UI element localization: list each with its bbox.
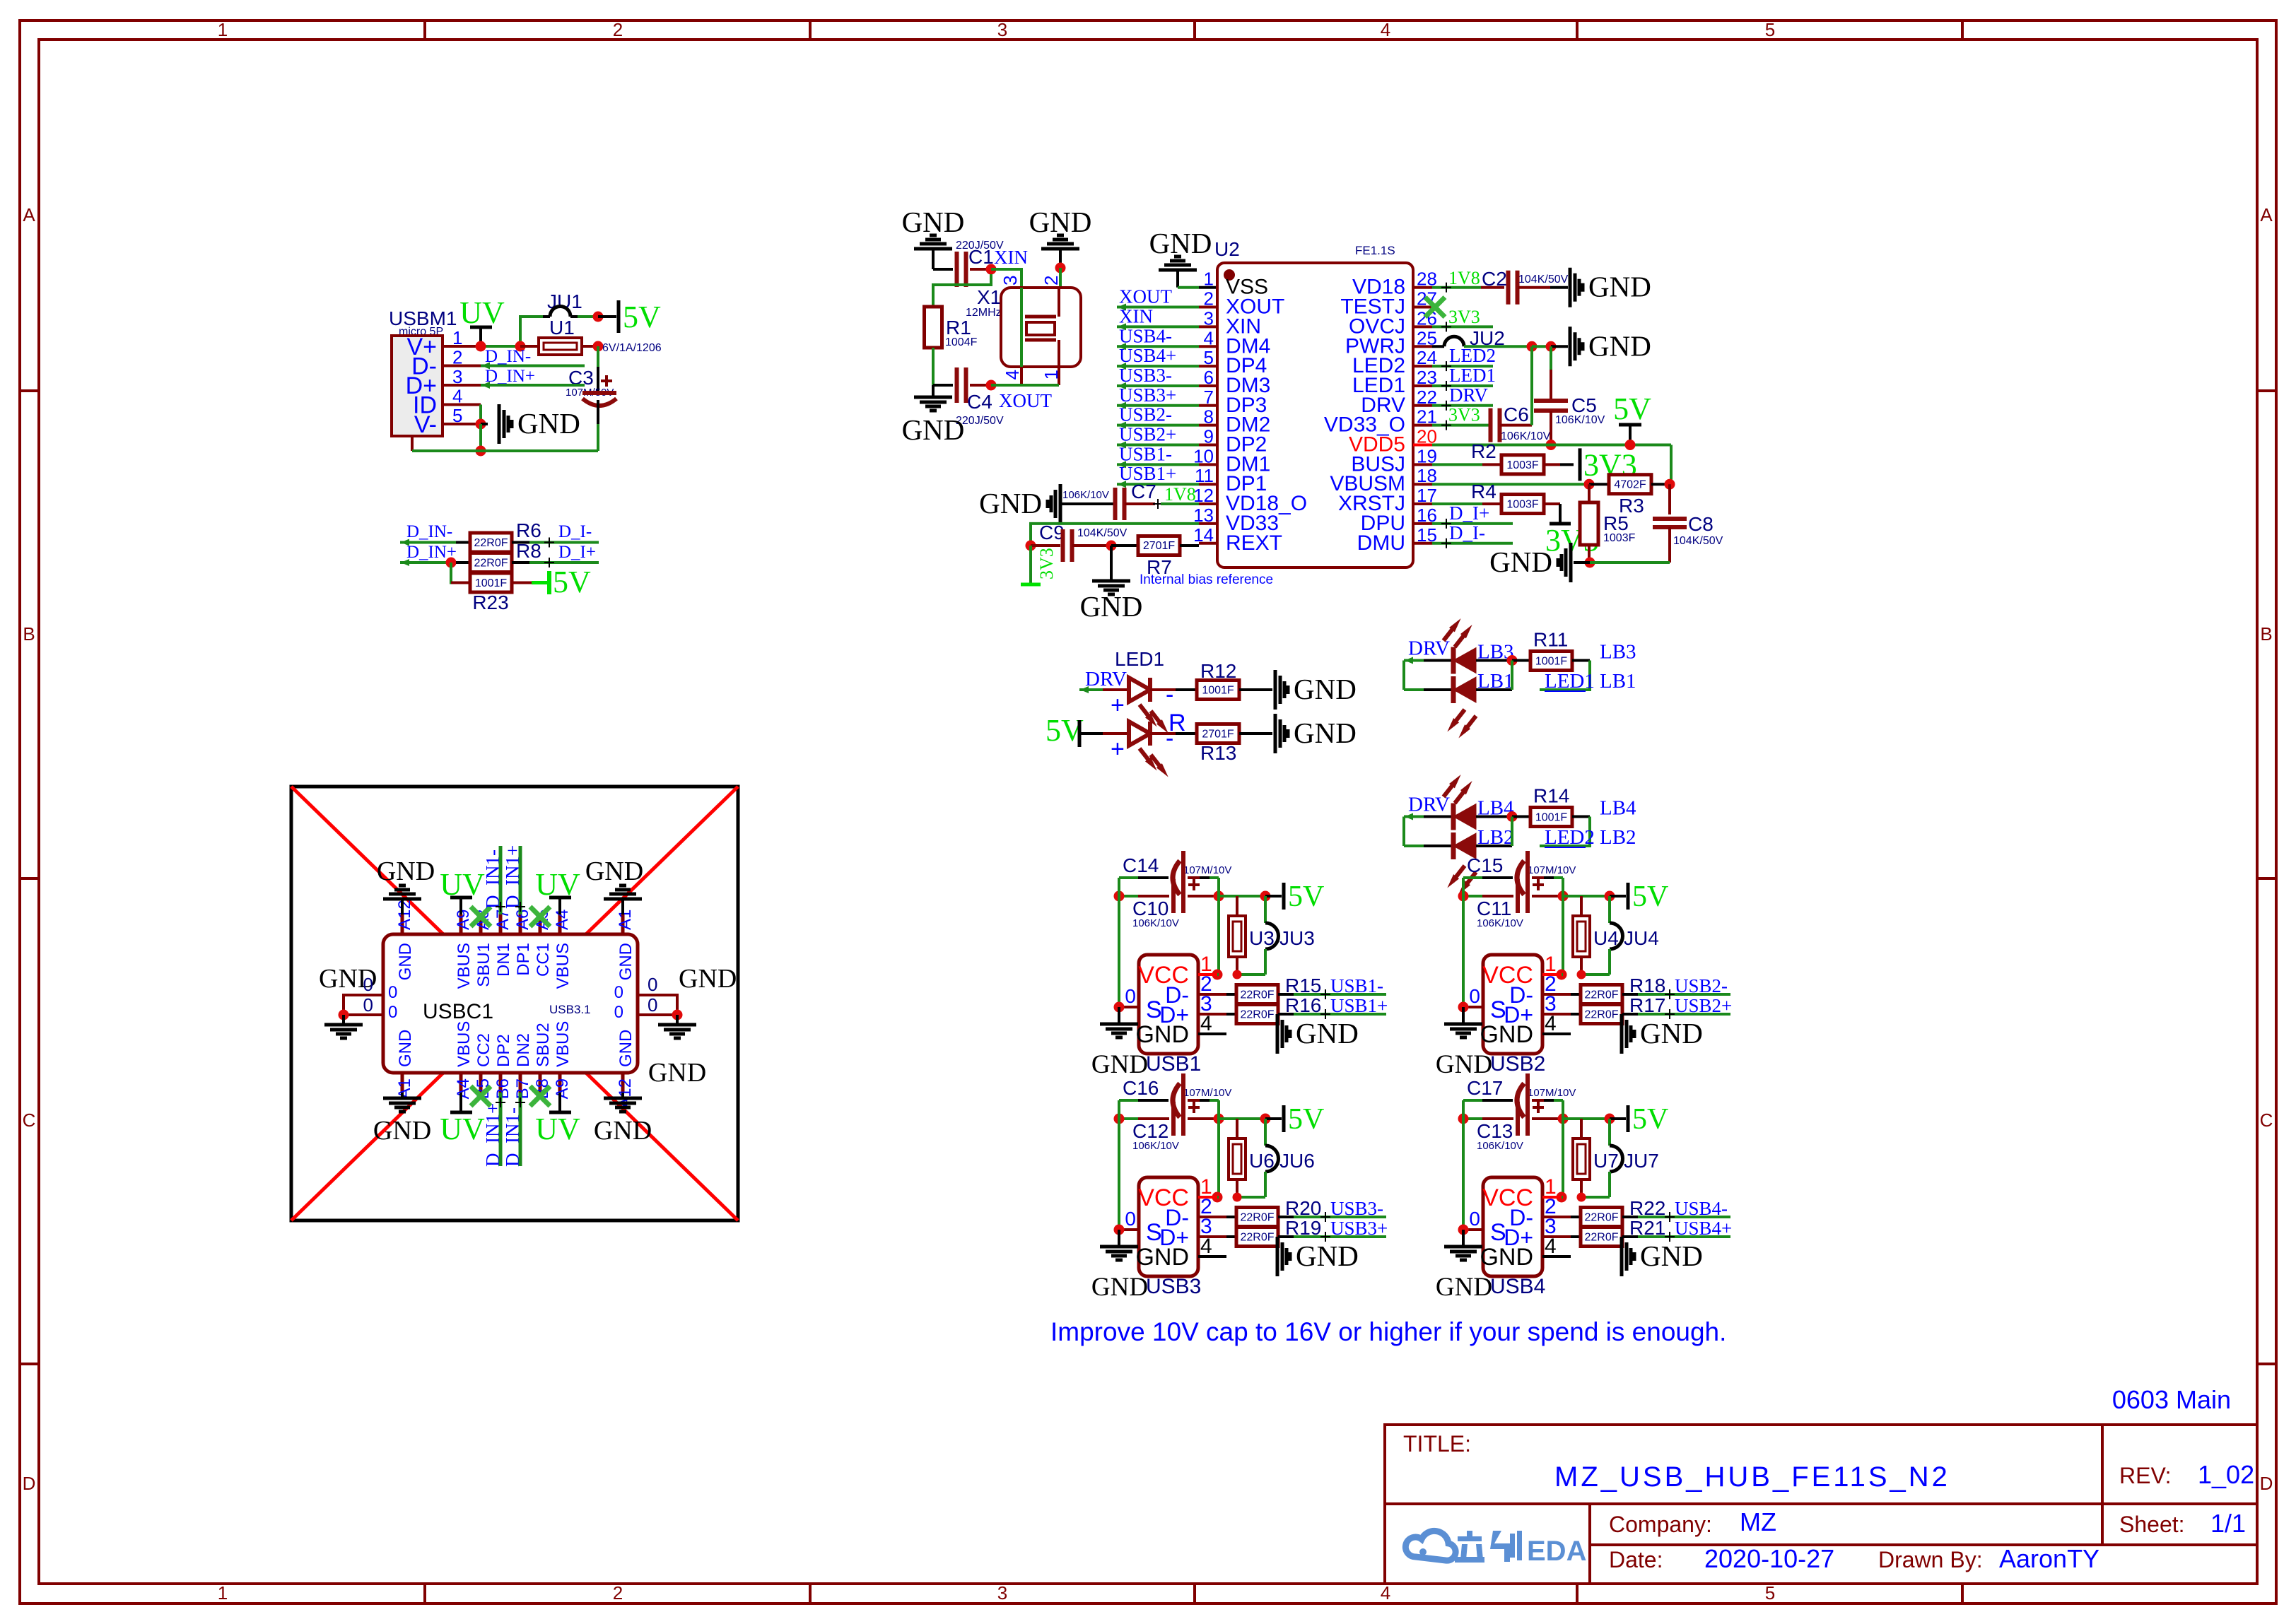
LED element B xyxy=(1103,732,1129,735)
svg-text:GND: GND xyxy=(1436,1273,1492,1302)
junction C11 right xyxy=(1558,891,1569,902)
svg-text:USBC1: USBC1 xyxy=(423,1000,493,1023)
svg-text:107M/10V: 107M/10V xyxy=(1528,1087,1576,1099)
svg-text:JU4: JU4 xyxy=(1624,927,1659,949)
svg-text:SBU1: SBU1 xyxy=(474,943,493,987)
USB pin 2 D- xyxy=(1198,993,1226,996)
svg-text:GND: GND xyxy=(1588,271,1651,303)
junction VCC a xyxy=(1557,1192,1567,1203)
junction V- xyxy=(476,419,486,430)
LED LB2 xyxy=(1404,845,1424,847)
svg-text:1001F: 1001F xyxy=(1202,685,1234,697)
wire USB1- xyxy=(1294,993,1386,996)
svg-text:0: 0 xyxy=(1125,1208,1136,1230)
ground GND (pin4) xyxy=(1620,1014,1624,1054)
junction V+ xyxy=(476,341,486,352)
wire XIN xyxy=(1117,325,1199,328)
junction JU2 b xyxy=(1546,341,1557,352)
svg-text:2020-10-27: 2020-10-27 xyxy=(1704,1544,1834,1573)
svg-text:GND: GND xyxy=(373,1116,431,1146)
wire USB3- xyxy=(1294,1216,1386,1218)
USBC1 bottom pin A4 VBUS xyxy=(459,1073,463,1093)
power flag UV (A9 bottom) xyxy=(549,1111,571,1114)
U2 pin 8 DM2 xyxy=(1199,424,1217,427)
U2 pin 26 OVCJ xyxy=(1413,325,1432,328)
svg-text:R13: R13 xyxy=(1200,742,1236,764)
svg-text:1001F: 1001F xyxy=(475,577,508,589)
ground GND (pin4) xyxy=(1620,1237,1624,1276)
svg-text:C10: C10 xyxy=(1132,898,1168,919)
wire VBUSM xyxy=(1432,483,1589,486)
wire USB3+ xyxy=(1294,1235,1386,1238)
svg-text:USB3-: USB3- xyxy=(1119,365,1172,386)
svg-text:A7: A7 xyxy=(493,910,512,930)
USBM1 pin 5 V- xyxy=(443,423,481,425)
svg-text:GND: GND xyxy=(594,1116,652,1146)
USB pin 3 D+ xyxy=(1198,1013,1226,1016)
wire D_I+ xyxy=(529,561,599,564)
junction xyxy=(515,341,526,352)
svg-text:C6: C6 xyxy=(1504,404,1529,425)
svg-text:2701F: 2701F xyxy=(1202,729,1234,741)
svg-text:GND: GND xyxy=(1135,1021,1189,1048)
svg-text:1003F: 1003F xyxy=(1506,499,1539,511)
svg-text:TITLE:: TITLE: xyxy=(1403,1431,1471,1457)
svg-text:D_I-: D_I- xyxy=(1449,522,1485,543)
svg-text:Date:: Date: xyxy=(1609,1547,1663,1572)
wire V- to GND xyxy=(481,423,488,425)
wire left rail xyxy=(1118,1100,1120,1119)
svg-text:CC1: CC1 xyxy=(534,943,553,977)
U2 pin 7 DP3 xyxy=(1199,404,1217,407)
junction right shell xyxy=(672,1010,683,1020)
svg-text:GND: GND xyxy=(585,857,643,886)
svg-text:D: D xyxy=(2260,1473,2273,1494)
junction JU2 a xyxy=(1527,341,1537,352)
capacitor C4 220J/50V xyxy=(933,384,953,387)
U2 pin 12 VD18_O xyxy=(1199,502,1217,505)
svg-text:LED2: LED2 xyxy=(1545,826,1595,849)
USBC1 top pin A5 CC1 xyxy=(539,914,542,934)
svg-text:0603 Main: 0603 Main xyxy=(2112,1385,2231,1414)
svg-text:1003F: 1003F xyxy=(1506,459,1539,471)
svg-text:D_I-: D_I- xyxy=(558,522,592,541)
junction D_IN+ xyxy=(446,558,457,568)
capacitor C6 106K/10V xyxy=(1489,408,1493,442)
svg-text:0: 0 xyxy=(1469,985,1480,1007)
USB pin 0 shield xyxy=(1463,1228,1483,1231)
junction 5V xyxy=(1260,891,1271,902)
ground GND (C2) xyxy=(1569,268,1572,307)
svg-text:GND: GND xyxy=(616,1030,635,1067)
svg-text:3: 3 xyxy=(1000,276,1021,286)
svg-text:5V: 5V xyxy=(553,565,591,599)
svg-text:C: C xyxy=(23,1110,36,1131)
svg-text:4: 4 xyxy=(1381,1582,1390,1604)
svg-text:5: 5 xyxy=(1765,19,1775,40)
wire V- down xyxy=(479,424,482,451)
svg-text:-: - xyxy=(1166,681,1173,708)
USB pin 2 D- xyxy=(1542,993,1571,996)
svg-text:5: 5 xyxy=(1204,347,1214,368)
svg-text:LB1: LB1 xyxy=(1600,670,1636,693)
wire DRV loop xyxy=(1402,817,1405,847)
svg-text:0: 0 xyxy=(388,983,397,1002)
wire D_IN1+ b xyxy=(499,1093,503,1166)
wire USB4+ xyxy=(1117,365,1199,367)
svg-text:5V: 5V xyxy=(623,300,661,334)
ground GND (pin4) xyxy=(1276,1014,1279,1054)
svg-text:22R0F: 22R0F xyxy=(1240,1232,1274,1244)
svg-text:12MHz: 12MHz xyxy=(966,307,1002,319)
power flag UV xyxy=(470,326,492,329)
svg-text:B6: B6 xyxy=(493,1078,512,1099)
svg-text:3V3: 3V3 xyxy=(1448,307,1480,327)
USB pin 0 shield xyxy=(1119,1006,1139,1008)
svg-text:GND: GND xyxy=(1480,1021,1533,1048)
wire VD33 net xyxy=(1031,524,1199,546)
svg-text:GND: GND xyxy=(1149,227,1212,259)
svg-text:0: 0 xyxy=(1125,985,1136,1007)
svg-text:LED2: LED2 xyxy=(1449,345,1496,366)
wire D_IN1- b xyxy=(519,1093,522,1166)
svg-text:22R0F: 22R0F xyxy=(1240,1212,1274,1224)
power flag 5V xyxy=(1265,1117,1282,1120)
wire DRV loop xyxy=(1402,661,1405,690)
svg-text:5V: 5V xyxy=(1632,1103,1668,1136)
svg-text:6: 6 xyxy=(1204,367,1214,388)
wire USB2- xyxy=(1117,424,1199,427)
title block xyxy=(1385,1425,2257,1584)
svg-text:R4: R4 xyxy=(1471,481,1496,502)
U2 pin 24 LED2 xyxy=(1413,365,1432,367)
USB pin 1 VCC xyxy=(1542,1196,1562,1199)
wire XOUT xyxy=(1117,306,1199,309)
USB pin 4 GND xyxy=(1198,1255,1226,1258)
junction C13 right xyxy=(1558,1114,1569,1124)
svg-text:LB4: LB4 xyxy=(1600,797,1636,820)
ground GND (R12) xyxy=(1274,670,1277,710)
svg-text:GND: GND xyxy=(648,1058,706,1088)
junction bottom xyxy=(476,446,486,457)
svg-text:C9: C9 xyxy=(1039,522,1065,543)
wire left rail xyxy=(1118,878,1120,896)
no-connect X (B5) xyxy=(471,1086,491,1106)
wire to 5V flag xyxy=(598,315,616,318)
svg-text:22R0F: 22R0F xyxy=(1584,1009,1618,1021)
svg-text:GND: GND xyxy=(1640,1017,1703,1049)
svg-text:MZ: MZ xyxy=(1740,1507,1776,1536)
junction C12 right xyxy=(1214,1114,1224,1124)
svg-text:A9: A9 xyxy=(553,1078,572,1099)
svg-text:GND: GND xyxy=(616,943,635,980)
U2 pin 5 DP4 xyxy=(1199,365,1217,367)
USBC1 top pin A7 DN1 xyxy=(499,914,503,934)
svg-text:GND: GND xyxy=(979,487,1042,519)
svg-text:2: 2 xyxy=(613,1582,623,1604)
svg-text:GND: GND xyxy=(1480,1244,1533,1271)
wire DPU xyxy=(1432,522,1513,525)
svg-text:D: D xyxy=(23,1473,36,1494)
connector USB4 xyxy=(1483,1177,1542,1276)
svg-text:7: 7 xyxy=(1204,387,1214,408)
crossed-out box (unused USB-C section) xyxy=(291,787,738,1220)
svg-text:C5: C5 xyxy=(1571,394,1597,416)
svg-text:GND: GND xyxy=(679,964,737,994)
svg-text:Improve 10V cap to 16V or high: Improve 10V cap to 16V or higher if your… xyxy=(1050,1317,1726,1346)
svg-text:SBU2: SBU2 xyxy=(534,1023,553,1067)
USB pin 2 D- xyxy=(1198,1216,1226,1218)
svg-text:1/1: 1/1 xyxy=(2210,1509,2246,1538)
wire left rail xyxy=(1462,878,1465,896)
ground GND (C4) xyxy=(932,385,935,396)
svg-text:+: + xyxy=(1111,736,1125,763)
svg-text:Internal bias reference: Internal bias reference xyxy=(1140,572,1273,587)
wire D_IN1- xyxy=(499,846,503,914)
svg-text:106K/10V: 106K/10V xyxy=(1555,414,1605,426)
connector USB1 xyxy=(1139,955,1198,1054)
svg-text:22R0F: 22R0F xyxy=(1240,1009,1274,1021)
capacitor C7 106K/10V xyxy=(1060,502,1115,505)
svg-text:D_IN+: D_IN+ xyxy=(485,367,535,386)
wire LED2 xyxy=(1432,365,1493,367)
svg-text:UV: UV xyxy=(535,1112,580,1146)
wire USB1+ xyxy=(1117,483,1199,486)
USBM1 pin 2 D- xyxy=(443,365,481,367)
svg-text:XIN: XIN xyxy=(1119,305,1153,326)
U2 pin 3 XIN xyxy=(1199,325,1217,328)
wire USB2- xyxy=(1638,993,1730,996)
U2 pin 16 DPU xyxy=(1413,522,1432,525)
svg-text:USB3: USB3 xyxy=(1146,1275,1201,1298)
LED LB4 xyxy=(1453,804,1476,830)
svg-text:GND: GND xyxy=(1489,546,1552,578)
svg-text:R6: R6 xyxy=(516,519,541,541)
USBC1 bottom pin B5 CC2 xyxy=(479,1073,483,1093)
junction fuse right xyxy=(593,341,604,352)
ground GND (USBC1 bottom A12) xyxy=(621,1093,624,1097)
U2 pin 2 XOUT xyxy=(1199,306,1217,309)
svg-text:VBUS: VBUS xyxy=(455,943,474,989)
no-connect X (B8) xyxy=(530,1086,550,1106)
no-connect X pin27 xyxy=(1425,298,1445,317)
svg-text:3: 3 xyxy=(452,366,462,387)
svg-text:B: B xyxy=(2260,623,2272,645)
svg-text:USB2+: USB2+ xyxy=(1119,424,1176,445)
U2 pin 20 VDD5 xyxy=(1413,444,1432,447)
U2 pin 9 DP2 xyxy=(1199,444,1217,447)
ground GND (shield) xyxy=(1462,1230,1465,1245)
svg-text:C16: C16 xyxy=(1123,1077,1159,1099)
svg-text:5: 5 xyxy=(452,405,462,426)
wire 5V tap xyxy=(1563,895,1610,898)
USBC1 top pin A4 VBUS xyxy=(558,914,562,934)
capacitor C5 106K/10V xyxy=(1550,346,1552,370)
power flag 5V xyxy=(1610,895,1626,898)
svg-text:1: 1 xyxy=(218,1582,228,1604)
svg-text:U1: U1 xyxy=(549,317,575,339)
junction VCC b xyxy=(1233,970,1242,979)
svg-text:1V8: 1V8 xyxy=(1448,268,1480,288)
crystal bottom pins to XOUT xyxy=(1020,367,1023,385)
power flag 3V3 (BUSJ) xyxy=(1578,448,1582,481)
svg-text:GND: GND xyxy=(1296,1017,1359,1049)
svg-text:R11: R11 xyxy=(1533,629,1568,651)
svg-text:22R0F: 22R0F xyxy=(1240,989,1274,1001)
wire VD33_O to C6 xyxy=(1432,424,1490,427)
svg-text:107M/10V: 107M/10V xyxy=(1183,864,1231,876)
junction shield xyxy=(1114,1002,1125,1013)
wire right rail xyxy=(1562,878,1564,975)
svg-text:C8: C8 xyxy=(1688,513,1714,535)
svg-text:USB4+: USB4+ xyxy=(1119,345,1176,366)
svg-text:6V/1A/1206: 6V/1A/1206 xyxy=(602,342,662,354)
USBM1 pin 3 D+ xyxy=(443,384,481,387)
power flag 3V3 (C9) xyxy=(1029,546,1032,584)
svg-text:FE1.1S: FE1.1S xyxy=(1355,244,1395,257)
svg-text:GND: GND xyxy=(1294,673,1357,705)
svg-text:B: B xyxy=(23,623,35,645)
svg-text:GND: GND xyxy=(1296,1240,1359,1272)
svg-text:DN2: DN2 xyxy=(514,1033,533,1067)
svg-text:4: 4 xyxy=(1200,1012,1212,1035)
wire 5V tap xyxy=(1563,1117,1610,1120)
wire USB3- xyxy=(1117,384,1199,387)
wire C8 to GND xyxy=(1590,561,1670,564)
junction LB3 xyxy=(1507,655,1518,666)
ground GND (R13) xyxy=(1274,714,1277,753)
ground GND (JU2) xyxy=(1569,326,1572,366)
svg-text:S: S xyxy=(1490,996,1506,1023)
svg-text:LED1: LED1 xyxy=(1449,365,1496,386)
svg-text:USB2-: USB2- xyxy=(1119,404,1172,425)
svg-text:USB3+: USB3+ xyxy=(1119,384,1176,406)
wire DRV xyxy=(1432,404,1493,407)
wire XIN to crystal pin3 xyxy=(991,269,1021,288)
junction VBUSM xyxy=(1584,479,1595,490)
junction R5 bottom xyxy=(1585,558,1595,568)
svg-text:1: 1 xyxy=(1204,269,1214,290)
wire USB2+ xyxy=(1638,1013,1730,1016)
svg-text:GND: GND xyxy=(1588,329,1651,362)
junction C10 left xyxy=(1114,891,1125,902)
svg-text:GND: GND xyxy=(377,857,435,886)
wire USB3+ xyxy=(1117,404,1199,407)
svg-text:S: S xyxy=(1490,1219,1506,1246)
connector USB2 xyxy=(1483,955,1542,1054)
svg-text:5: 5 xyxy=(1765,1582,1775,1604)
junction 5V xyxy=(1605,1114,1615,1124)
wire V+ up to jumper xyxy=(520,317,543,346)
USBC1 bottom pin A12 GND xyxy=(621,1073,625,1093)
svg-text:U4: U4 xyxy=(1593,927,1619,949)
svg-text:Company:: Company: xyxy=(1609,1512,1712,1537)
wire C6 to JU2 net xyxy=(1530,346,1533,425)
USBC1 top pin A9 VBUS xyxy=(459,914,463,934)
svg-text:0: 0 xyxy=(388,1003,397,1022)
junction XOUT xyxy=(986,380,997,391)
svg-text:GND: GND xyxy=(396,1030,415,1067)
svg-text:D_IN-: D_IN- xyxy=(406,522,452,541)
junction C10 right xyxy=(1214,891,1224,902)
svg-text:Drawn By:: Drawn By: xyxy=(1878,1547,1983,1572)
USB pin 4 GND xyxy=(1198,1032,1226,1035)
USB pin 3 D+ xyxy=(1198,1235,1226,1238)
svg-text:DN1: DN1 xyxy=(494,943,513,977)
junction VCC b xyxy=(1577,970,1586,979)
svg-text:GND: GND xyxy=(1135,1244,1189,1271)
svg-text:104K/50V: 104K/50V xyxy=(1077,527,1127,539)
svg-text:USB4-: USB4- xyxy=(1119,325,1172,346)
junction C13 left xyxy=(1458,1114,1469,1124)
power flag 5V xyxy=(1610,1117,1626,1120)
junction XIN xyxy=(986,264,997,275)
svg-text:REV:: REV: xyxy=(2119,1463,2172,1488)
svg-text:MZ_USB_HUB_FE11S_N2: MZ_USB_HUB_FE11S_N2 xyxy=(1554,1461,1950,1493)
wire 5V net down to C3 xyxy=(597,346,599,367)
USB pin 1 VCC xyxy=(1542,973,1562,976)
svg-text:2: 2 xyxy=(613,19,623,40)
U2 pin 13 VD33 xyxy=(1199,522,1217,525)
svg-text:REXT: REXT xyxy=(1226,531,1282,555)
wire USB4- xyxy=(1117,345,1199,348)
LED LB3 xyxy=(1453,648,1476,673)
svg-text:GND: GND xyxy=(1640,1240,1703,1272)
svg-text:4: 4 xyxy=(1204,327,1214,348)
svg-text:A9: A9 xyxy=(454,910,473,930)
svg-text:USB3.1: USB3.1 xyxy=(549,1003,591,1016)
svg-text:1001F: 1001F xyxy=(1535,812,1568,824)
ground GND (shield) xyxy=(1118,1230,1120,1245)
svg-text:3: 3 xyxy=(1204,307,1214,329)
junction shield xyxy=(1114,1225,1125,1235)
USBC1 bottom pin B8 SBU2 xyxy=(539,1073,542,1093)
junction VCC a xyxy=(1212,970,1223,980)
USBC1 top pin A1 GND xyxy=(621,914,625,934)
svg-text:106K/10V: 106K/10V xyxy=(1132,1140,1179,1152)
USB pin 2 D- xyxy=(1542,1216,1571,1218)
power flag UV (A4 bottom) xyxy=(450,1111,472,1114)
power flag 5V xyxy=(1265,895,1282,898)
wire right rail xyxy=(1562,1100,1564,1197)
svg-text:C15: C15 xyxy=(1467,854,1503,876)
junction LB4 xyxy=(1507,811,1518,822)
svg-text:3V3: 3V3 xyxy=(1448,405,1480,425)
svg-text:2: 2 xyxy=(1204,288,1214,310)
junction jumper/5V xyxy=(593,312,604,322)
svg-text:5V: 5V xyxy=(1288,881,1324,913)
svg-text:DP2: DP2 xyxy=(494,1034,513,1067)
wire VDD5 5V net xyxy=(1432,444,1671,447)
svg-text:GND: GND xyxy=(1029,206,1092,238)
svg-text:A: A xyxy=(2260,204,2273,225)
svg-text:C4: C4 xyxy=(967,391,992,413)
USBC1 top pin A12 GND xyxy=(401,914,404,934)
svg-text:4: 4 xyxy=(1200,1235,1212,1258)
svg-text:LED1: LED1 xyxy=(1115,648,1164,670)
USB pin 0 shield xyxy=(1463,1006,1483,1008)
svg-text:A4: A4 xyxy=(553,910,572,930)
wire 5V tap xyxy=(1219,1117,1265,1120)
svg-text:GND: GND xyxy=(1436,1050,1492,1079)
U2 pin 18 VBUSM xyxy=(1413,483,1432,486)
svg-text:1: 1 xyxy=(452,327,462,348)
junction VCC b xyxy=(1233,1193,1242,1202)
U2 pin 4 DM4 xyxy=(1199,345,1217,348)
svg-text:107M/10V: 107M/10V xyxy=(1528,864,1576,876)
junction VCC a xyxy=(1557,970,1567,980)
svg-text:D_I+: D_I+ xyxy=(558,543,596,562)
